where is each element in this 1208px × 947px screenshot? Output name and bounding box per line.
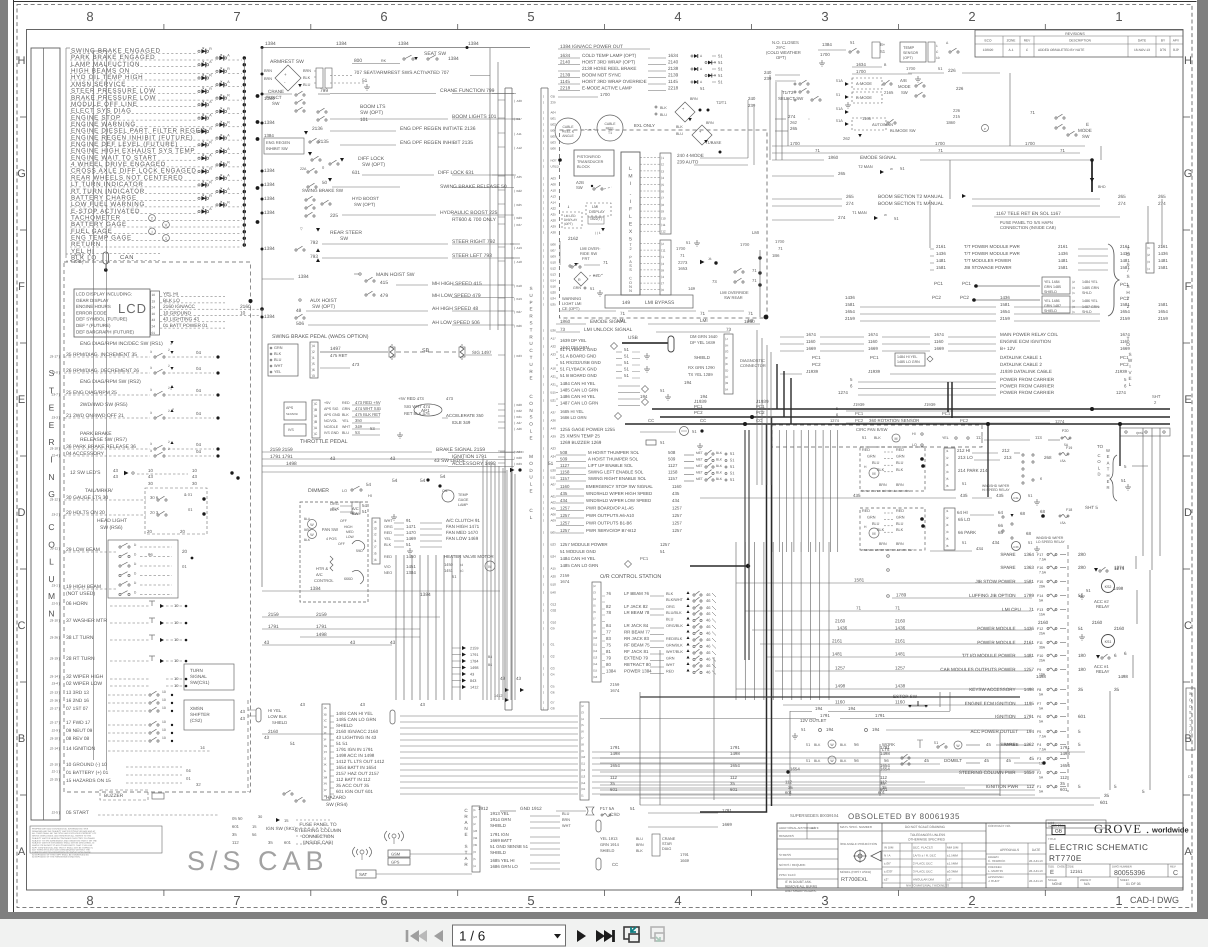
svg-text:B39: B39: [517, 462, 523, 466]
svg-text:⟩14: ⟩14: [581, 781, 586, 785]
svg-text:A10: A10: [551, 189, 557, 193]
svg-text:⟩4: ⟩4: [661, 176, 664, 180]
svg-text:1166: 1166: [862, 116, 872, 121]
svg-text:51: 51: [624, 347, 629, 352]
svg-text:04: 04: [196, 442, 201, 447]
svg-text:J2-14: J2-14: [50, 747, 58, 751]
svg-text:W: W: [1106, 448, 1110, 453]
svg-text:⟩B: ⟩B: [725, 381, 728, 385]
svg-text:KS1: KS1: [1105, 640, 1112, 644]
svg-text:5A: 5A: [1039, 720, 1044, 724]
svg-text:J3-3: J3-3: [52, 416, 59, 420]
svg-text:LCD DISPLAY INCLUDING:: LCD DISPLAY INCLUDING:: [76, 292, 132, 297]
svg-text:4 POS: 4 POS: [326, 537, 337, 541]
svg-text:B14: B14: [551, 279, 557, 283]
svg-text:10: 10: [174, 658, 179, 663]
svg-text:J3-11: J3-11: [50, 547, 58, 551]
svg-text:CC: CC: [700, 418, 706, 423]
svg-text:2139: 2139: [668, 73, 679, 78]
svg-text:D1: D1: [1188, 775, 1193, 779]
svg-text:1860: 1860: [560, 319, 571, 324]
svg-text:ACCELERATE 350: ACCELERATE 350: [446, 413, 484, 418]
svg-text:⟩2: ⟩2: [661, 242, 664, 246]
svg-text:⟩3: ⟩3: [581, 710, 584, 714]
svg-text:1274: 1274: [830, 418, 840, 423]
svg-text:T1/BASE: T1/BASE: [705, 140, 722, 145]
svg-text:112: 112: [785, 780, 793, 785]
svg-text:6: 6: [380, 893, 387, 908]
svg-text:5: 5: [1142, 789, 1145, 794]
svg-text:793: 793: [310, 254, 318, 260]
svg-text:101: 101: [360, 117, 368, 123]
svg-text:DATALINK CABLE 1: DATALINK CABLE 1: [1000, 355, 1042, 360]
svg-text:04: 04: [196, 350, 201, 355]
svg-text:BLK: BLK: [660, 106, 667, 110]
svg-text:○: ○: [808, 117, 810, 121]
svg-text:240: 240: [764, 70, 772, 75]
svg-text:1581: 1581: [845, 302, 855, 307]
svg-text:1160: 1160: [806, 339, 816, 344]
svg-text:508: 508: [668, 450, 676, 455]
svg-text:1485 CAN LO GRN: 1485 CAN LO GRN: [560, 563, 598, 568]
svg-text:⟩27: ⟩27: [473, 815, 478, 819]
svg-text:N: N: [529, 408, 532, 413]
svg-text:212 HI: 212 HI: [957, 448, 970, 453]
svg-text:RED: RED: [896, 509, 904, 513]
svg-text:51: 51: [962, 481, 967, 486]
svg-text:10: 10: [152, 312, 156, 316]
svg-text:1436: 1436: [1158, 251, 1168, 256]
svg-text:1257: 1257: [560, 528, 570, 533]
svg-text:10: 10: [240, 310, 246, 316]
svg-text:1257: 1257: [672, 528, 682, 533]
svg-text:1157: 1157: [668, 476, 678, 481]
svg-text:A-MODE: A-MODE: [856, 81, 872, 86]
svg-text:1791: 1791: [1060, 745, 1070, 750]
svg-text:43: 43: [330, 456, 336, 462]
svg-text:⟩2: ⟩2: [1072, 280, 1075, 284]
svg-text:R: R: [209, 180, 212, 184]
svg-text:POWER FROM CARRIER: POWER FROM CARRIER: [1000, 384, 1055, 389]
svg-text:76: 76: [606, 591, 611, 596]
svg-text:A38: A38: [551, 231, 557, 235]
svg-text:1686 GRN LO: 1686 GRN LO: [490, 864, 518, 869]
svg-text:M: M: [628, 174, 632, 180]
svg-text:46: 46: [706, 605, 711, 610]
svg-text:T/T POWER MODULE PWR: T/T POWER MODULE PWR: [964, 251, 1020, 256]
svg-text:1257: 1257: [560, 513, 570, 518]
svg-text:O/R CONTROL STATION: O/R CONTROL STATION: [600, 574, 661, 580]
svg-text:435: 435: [560, 491, 568, 496]
svg-text:1384: 1384: [606, 669, 616, 674]
svg-text:1484 CAN HI YEL: 1484 CAN HI YEL: [560, 556, 596, 561]
svg-text:ORG: ORG: [666, 605, 675, 609]
svg-text:⟩3: ⟩3: [374, 526, 377, 530]
svg-text:SENSOR: SENSOR: [903, 51, 919, 55]
svg-text:⟩7: ⟩7: [374, 545, 377, 549]
svg-text:BLK: BLK: [814, 759, 821, 763]
svg-text:1498: 1498: [1060, 751, 1070, 756]
svg-text:25 XMSN TEMP 25: 25 XMSN TEMP 25: [560, 434, 600, 439]
svg-text:LF BEAM 76: LF BEAM 76: [624, 591, 649, 596]
svg-text:A33: A33: [551, 353, 557, 357]
svg-text:⟨: ⟨: [543, 147, 544, 151]
svg-text:⟩M: ⟩M: [324, 775, 328, 779]
svg-text:A25: A25: [551, 213, 557, 217]
svg-text:SWING BRAKE RELEASE 50: SWING BRAKE RELEASE 50: [440, 184, 507, 190]
svg-text:1160: 1160: [560, 484, 570, 489]
svg-text:B23: B23: [551, 543, 557, 547]
svg-text:10: 10: [162, 720, 166, 724]
svg-text:1822(T): 1822(T): [590, 217, 602, 221]
svg-text:INHIBIT SW: INHIBIT SW: [266, 146, 288, 151]
svg-text:2: 2: [629, 247, 631, 251]
svg-text:73: 73: [712, 279, 717, 284]
svg-text:7: 7: [233, 893, 240, 908]
svg-text:2136: 2136: [312, 126, 323, 132]
svg-text:54: 54: [440, 474, 446, 480]
svg-text:ORG: ORG: [384, 525, 393, 529]
svg-text:2: 2: [168, 364, 170, 368]
svg-text:01: 01: [188, 507, 193, 512]
svg-text:112: 112: [1060, 775, 1068, 780]
svg-text:O: O: [529, 461, 533, 466]
svg-text:G10: G10: [551, 621, 557, 625]
svg-text:N: N: [464, 826, 467, 831]
svg-text:51: 51: [406, 542, 411, 547]
svg-text:09 NEUT 09: 09 NEUT 09: [66, 728, 93, 734]
svg-text:04: 04: [196, 388, 201, 393]
svg-text:01 OF 06: 01 OF 06: [1126, 882, 1141, 886]
svg-text:180: 180: [1078, 653, 1086, 658]
svg-text:5: 5: [629, 237, 632, 243]
svg-text:30: 30: [148, 481, 153, 486]
svg-text:⟩4: ⟩4: [374, 520, 377, 524]
svg-text:12V OUTLET: 12V OUTLET: [800, 718, 827, 723]
svg-text:O: O: [529, 422, 533, 427]
svg-text:E-MODE ACTIVE LAMP: E-MODE ACTIVE LAMP: [582, 86, 632, 91]
svg-text:HI YEL: HI YEL: [268, 708, 282, 713]
svg-text:51: 51: [836, 93, 840, 97]
svg-text:IVS GND: IVS GND: [324, 431, 339, 435]
svg-text:149: 149: [622, 300, 630, 306]
svg-text:BLK: BLK: [716, 458, 723, 462]
svg-text:5A: 5A: [1039, 790, 1044, 794]
svg-text:C: C: [18, 620, 26, 632]
svg-text:APV: APV: [1173, 39, 1180, 43]
svg-text:1450: 1450: [406, 554, 416, 559]
svg-text:GRN: GRN: [867, 515, 876, 519]
svg-text:REEL: REEL: [606, 127, 615, 131]
svg-text:BLU: BLU: [676, 132, 683, 136]
svg-text:⟩P: ⟩P: [324, 788, 327, 792]
svg-text:268: 268: [1044, 455, 1052, 460]
svg-text:NOT: NOT: [551, 159, 558, 163]
svg-text:1127: 1127: [560, 463, 570, 468]
svg-text:ENG REGEN: ENG REGEN: [266, 140, 290, 145]
svg-text:LMI BYPASS: LMI BYPASS: [645, 300, 675, 306]
svg-text:1700: 1700: [676, 246, 686, 251]
svg-text:1127: 1127: [668, 463, 678, 468]
svg-text:PC2: PC2: [694, 410, 703, 415]
svg-text:IDLE 349: IDLE 349: [452, 420, 471, 425]
svg-text:⟩5: ⟩5: [473, 857, 476, 861]
svg-text:20: 20: [180, 529, 185, 534]
svg-text:214 PARK 214: 214 PARK 214: [958, 468, 988, 473]
svg-text:YEL: YEL: [342, 419, 349, 423]
svg-text:BRN: BRN: [706, 121, 714, 125]
svg-text:BLK: BLK: [332, 507, 340, 511]
svg-text:B40: B40: [551, 591, 557, 595]
svg-text:ORG/BLK: ORG/BLK: [666, 624, 683, 628]
svg-text:C. HEDRICK: C. HEDRICK: [988, 859, 1005, 863]
svg-text:434: 434: [560, 498, 568, 503]
svg-text:⟩15: ⟩15: [581, 787, 586, 791]
svg-text:⟩H: ⟩H: [324, 750, 327, 754]
svg-text:T1/T2: T1/T2: [782, 90, 794, 95]
svg-text:LOW: LOW: [346, 535, 355, 539]
svg-text:1654: 1654: [610, 763, 620, 768]
svg-text:GRN: GRN: [896, 455, 905, 459]
svg-text:WNDSHD WIPER MOTOR & PARK SW: WNDSHD WIPER MOTOR & PARK SW: [861, 548, 913, 552]
svg-text:WHT: WHT: [666, 663, 675, 667]
svg-text:02 WIPER LOW: 02 WIPER LOW: [66, 681, 102, 687]
svg-text:F14: F14: [1037, 594, 1043, 598]
svg-text:46: 46: [706, 631, 711, 636]
svg-text:ORG: ORG: [330, 502, 339, 506]
svg-text:SHIELD: SHIELD: [1044, 290, 1057, 294]
svg-text:43: 43: [148, 474, 153, 479]
svg-text:LO: LO: [912, 443, 917, 447]
svg-text:51: 51: [660, 388, 665, 393]
svg-text:77: 77: [606, 630, 611, 635]
svg-text:G: G: [1184, 168, 1193, 180]
svg-text:BLU: BLU: [303, 83, 311, 87]
svg-text:F16: F16: [1037, 566, 1043, 570]
svg-text:GRN/BLK: GRN/BLK: [666, 644, 683, 648]
svg-text:2160: 2160: [835, 619, 846, 624]
svg-text:1484 CAN HI YEL: 1484 CAN HI YEL: [336, 711, 373, 716]
svg-text:43: 43: [152, 318, 156, 322]
svg-text:SKYLT WIPER MOTOR & PARK SW: SKYLT WIPER MOTOR & PARK SW: [861, 489, 910, 493]
svg-text:4: 4: [674, 893, 681, 908]
svg-text:RK: RK: [381, 59, 387, 63]
svg-text:⟩6: ⟩6: [593, 610, 596, 614]
svg-text:AND SHARP EDGES.: AND SHARP EDGES.: [785, 889, 817, 893]
svg-text:71: 71: [620, 311, 626, 316]
svg-text:F7: F7: [1037, 702, 1041, 706]
svg-text:MAIN POWER RELAY COIL: MAIN POWER RELAY COIL: [1000, 332, 1058, 337]
svg-text:DWG NUMBER: DWG NUMBER: [1112, 865, 1132, 869]
svg-text:WHT: WHT: [562, 824, 571, 828]
svg-text:⟩1: ⟩1: [1072, 310, 1075, 314]
svg-text:38 LT TURN: 38 LT TURN: [66, 635, 94, 641]
svg-text:1653: 1653: [678, 266, 688, 271]
svg-text:A40: A40: [551, 427, 557, 431]
svg-text:GRN: GRN: [896, 515, 905, 519]
svg-text:2159: 2159: [1158, 316, 1168, 321]
svg-text:⟨: ⟨: [543, 337, 544, 341]
svg-text:A/C CLUTCH 91: A/C CLUTCH 91: [446, 518, 480, 523]
svg-text:180: 180: [1078, 667, 1086, 672]
svg-text:1436: 1436: [936, 251, 946, 256]
svg-text:RED: RED: [384, 555, 392, 559]
svg-text:B+ 12V: B+ 12V: [1000, 346, 1016, 351]
svg-text:508: 508: [560, 450, 568, 455]
svg-text:PC2: PC2: [960, 418, 969, 423]
svg-text:1481: 1481: [1158, 258, 1168, 263]
svg-text:BUZZER: BUZZER: [104, 793, 124, 799]
svg-text:BLK: BLK: [716, 471, 723, 475]
svg-text:435: 435: [960, 493, 968, 498]
svg-text:NONE: NONE: [1052, 882, 1063, 886]
svg-text:1634: 1634: [856, 62, 866, 67]
svg-text:71: 71: [603, 260, 608, 265]
svg-text:⟨: ⟨: [543, 183, 544, 187]
svg-text:1160: 1160: [934, 339, 944, 344]
svg-text:EMODE SIGNAL: EMODE SIGNAL: [590, 319, 627, 325]
svg-text:LMI UNLOCK SIGNAL: LMI UNLOCK SIGNAL: [584, 327, 633, 333]
svg-text:194: 194: [640, 394, 648, 399]
svg-text:149: 149: [688, 286, 696, 291]
svg-text:BRN: BRN: [636, 843, 644, 847]
svg-text:80055396: 80055396: [1114, 870, 1145, 877]
svg-text:5: 5: [1078, 742, 1081, 747]
svg-text:265: 265: [790, 126, 798, 131]
svg-text:W: W: [310, 533, 314, 537]
svg-text:24: 24: [152, 306, 156, 310]
svg-text:⟨: ⟨: [543, 419, 544, 423]
svg-text:⟩9: ⟩9: [593, 630, 596, 634]
svg-text:51: 51: [730, 451, 735, 456]
svg-text:⟨: ⟨: [543, 219, 544, 223]
svg-text:ANGLE: ANGLE: [562, 134, 574, 138]
svg-text:1145: 1145: [560, 79, 570, 84]
svg-text:HOIST 3RD WRAP (OPT): HOIST 3RD WRAP (OPT): [582, 60, 636, 65]
svg-text:434: 434: [976, 546, 984, 551]
svg-text:71: 71: [748, 311, 754, 316]
svg-text:2161: 2161: [895, 639, 906, 644]
svg-text:T: T: [530, 355, 533, 360]
svg-text:BHD: BHD: [1098, 185, 1106, 189]
svg-text:10: 10: [174, 676, 179, 681]
svg-text:5A: 5A: [1039, 599, 1044, 603]
svg-text:56: 56: [252, 832, 257, 837]
svg-text:A/C: A/C: [316, 572, 323, 577]
svg-text:A17: A17: [551, 337, 557, 341]
svg-text:LMI: LMI: [700, 318, 708, 323]
svg-text:POWER FROM CARRIER: POWER FROM CARRIER: [1000, 377, 1055, 382]
svg-text:PC1: PC1: [812, 355, 821, 360]
svg-text:1498: 1498: [1113, 586, 1124, 591]
svg-text:MH HIGH SPEED 415: MH HIGH SPEED 415: [432, 281, 482, 287]
svg-text:MH LOW SPEED 479: MH LOW SPEED 479: [432, 293, 481, 299]
svg-text:A06: A06: [551, 513, 557, 517]
svg-text:BRN: BRN: [879, 542, 887, 546]
svg-text:1384: 1384: [264, 210, 275, 216]
svg-text:BLK/WHT: BLK/WHT: [666, 598, 684, 602]
svg-text:⟩C: ⟩C: [314, 402, 318, 406]
svg-text:1257 MODULE POWER: 1257 MODULE POWER: [560, 542, 608, 547]
svg-text:1362: 1362: [1024, 742, 1035, 747]
svg-text:J3-1: J3-1: [52, 584, 59, 588]
svg-text:MET: MET: [696, 477, 703, 481]
svg-text:1581: 1581: [1158, 265, 1168, 270]
svg-text:BLK: BLK: [303, 76, 311, 80]
svg-text:ENGINE ECM IGNITION: ENGINE ECM IGNITION: [1000, 339, 1051, 344]
svg-text:⟩1: ⟩1: [1072, 291, 1075, 295]
svg-text:112: 112: [880, 780, 888, 785]
svg-text:LOW BLK: LOW BLK: [268, 714, 287, 719]
svg-text:⟩1: ⟩1: [946, 449, 949, 453]
svg-text:⟩3: ⟩3: [661, 169, 664, 173]
svg-text:CONNECTION (INSIDE CAB): CONNECTION (INSIDE CAB): [1000, 225, 1056, 230]
svg-text:46: 46: [706, 592, 711, 597]
svg-text:P: P: [984, 127, 986, 131]
svg-text:2WD/4WD SW (RS5): 2WD/4WD SW (RS5): [80, 402, 128, 408]
svg-text:⟨: ⟨: [543, 495, 544, 499]
svg-text:⟨: ⟨: [543, 399, 544, 403]
svg-text:✕: ✕: [88, 252, 91, 257]
svg-text:A05: A05: [551, 507, 557, 511]
svg-text:GRN 1487: GRN 1487: [1044, 304, 1061, 308]
svg-text:1384: 1384: [468, 41, 479, 47]
svg-text:35: 35: [1114, 687, 1120, 692]
svg-text:⟨: ⟨: [543, 447, 544, 451]
svg-text:265: 265: [1118, 194, 1126, 199]
svg-text:MET: MET: [696, 464, 703, 468]
svg-text:BLU: BLU: [872, 461, 880, 465]
svg-text:BRN: BRN: [562, 818, 570, 822]
svg-text:ZONE: ZONE: [1007, 39, 1016, 43]
svg-text:54: 54: [366, 482, 372, 487]
svg-text:262: 262: [790, 120, 798, 125]
svg-text:601: 601: [730, 787, 738, 792]
svg-text:J2-1: J2-1: [52, 770, 59, 774]
svg-text:F20: F20: [1062, 429, 1069, 433]
svg-text:10: 10: [152, 293, 156, 297]
svg-text:J2-16: J2-16: [50, 699, 58, 703]
svg-text:NC/IDLE: NC/IDLE: [324, 425, 339, 429]
svg-text:473: 473: [352, 362, 360, 367]
svg-text:2161: 2161: [1158, 244, 1168, 249]
svg-text:1471: 1471: [406, 524, 416, 529]
svg-text:3: 3: [150, 366, 152, 370]
svg-text:F12: F12: [1037, 627, 1043, 631]
svg-text:SW: SW: [901, 90, 908, 95]
svg-text:RF JACK 81: RF JACK 81: [624, 649, 649, 654]
svg-text:S: S: [529, 321, 532, 326]
svg-text:1497: 1497: [330, 346, 341, 352]
svg-text:RR JACK 83: RR JACK 83: [624, 636, 649, 641]
svg-text:M: M: [529, 454, 533, 459]
svg-text:CONTRACT NO.: CONTRACT NO.: [988, 824, 1011, 828]
svg-text:TEMP: TEMP: [458, 493, 469, 497]
svg-text:SAT: SAT: [359, 872, 368, 877]
svg-text:SWING BRAKE SW: SWING BRAKE SW: [302, 188, 344, 193]
svg-text:DEF SYMBOL (FUTURE): DEF SYMBOL (FUTURE): [76, 317, 128, 322]
svg-text:360 ROTATION SENSOR: 360 ROTATION SENSOR: [869, 418, 919, 423]
svg-text:J3-4: J3-4: [52, 682, 59, 686]
svg-text:PWR SERVO/OP B7-B12: PWR SERVO/OP B7-B12: [586, 528, 637, 533]
svg-text:DIMMER: DIMMER: [308, 488, 329, 494]
svg-text:B31: B31: [517, 415, 523, 419]
svg-text:1581: 1581: [1058, 265, 1068, 270]
svg-text:1634: 1634: [668, 53, 679, 58]
svg-text:45: 45: [1006, 758, 1011, 763]
svg-text:N/A TO MATERIAL THICKNESS: N/A TO MATERIAL THICKNESS: [906, 884, 949, 888]
svg-text:⟩2: ⟩2: [661, 163, 664, 167]
